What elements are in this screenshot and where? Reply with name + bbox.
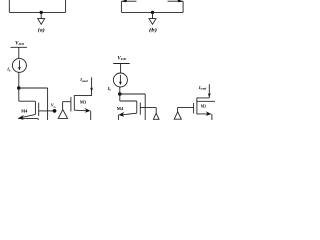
hollow arrow down (a) xyxy=(38,19,45,25)
wire right vertical of loop (a) xyxy=(65,0,67,12)
svg-text:VDD: VDD xyxy=(117,56,127,61)
wire node to gate tie (middle) xyxy=(120,93,145,95)
current source arrow inside (middle) xyxy=(119,75,121,83)
svg-text:Ib: Ib xyxy=(107,86,112,92)
wire gate tie vertical (middle) xyxy=(144,94,146,120)
svg-text:VDD: VDD xyxy=(15,41,25,46)
wire source drop (right M3) xyxy=(211,114,213,120)
transistor M3 gate bar (right) xyxy=(193,103,195,113)
node VG terminal dot (left) xyxy=(53,109,57,113)
wire top-right segment with current arrow pointing right (b) xyxy=(168,0,184,2)
current source arrow inside (left) xyxy=(18,60,20,68)
node junction dot (a) xyxy=(40,11,43,14)
wire gate stem down to triangle (middle M4) xyxy=(155,108,157,114)
wire stem below node (b) xyxy=(152,12,154,18)
wire left vertical of loop (b) xyxy=(120,1,122,12)
svg-text:(b): (b) xyxy=(149,29,157,34)
node drain dot (middle) xyxy=(118,92,122,96)
wire VDD to current source (left) xyxy=(18,47,20,58)
wire left vertical of loop (a) xyxy=(8,0,10,12)
transistor M4 channel (middle) xyxy=(136,101,138,113)
svg-text:(a): (a) xyxy=(38,29,45,34)
transistor M3 gate bar (middle) xyxy=(70,97,72,111)
transistor M3 channel (middle) xyxy=(73,95,75,110)
wire stem below node (a) xyxy=(40,12,42,18)
wire drain stub (middle M4) xyxy=(120,100,137,102)
wire gate stem down to triangle (right M3) xyxy=(177,107,179,111)
node drain dot (left) xyxy=(17,86,21,90)
wire corner to drain (right M3) xyxy=(197,98,209,101)
wire source drop (middle M4) xyxy=(117,115,119,120)
current source Ib circle (left) xyxy=(12,58,26,72)
wire bottom of loop (b) xyxy=(121,11,183,13)
wire drain down (left M4) xyxy=(18,88,20,101)
wire source rail (left) xyxy=(18,118,38,120)
wire top-left segment with current arrow pointing left (b) xyxy=(121,0,136,2)
wire gate lead (left M4) xyxy=(39,110,55,112)
wire Iout down (right) xyxy=(208,84,210,98)
current arrow down (right) xyxy=(208,93,211,97)
wire gate lead (middle M4) xyxy=(140,107,156,109)
wire right vertical of loop (b) xyxy=(182,1,184,12)
wire VDD to current source (middle) xyxy=(120,64,122,74)
node junction dot (b) xyxy=(151,11,154,14)
transistor M4 source lead with arrow (middle) xyxy=(121,113,137,115)
hollow triangle up (middle M4 gate) xyxy=(153,113,159,119)
transistor M4 gate bar (left) xyxy=(38,103,40,116)
svg-text:M3: M3 xyxy=(80,100,86,105)
wire gate lead (right M3) xyxy=(178,106,194,108)
transistor M3 source lead with arrow (middle) xyxy=(74,109,89,112)
hollow triangle up (right M3 gate) xyxy=(174,112,181,119)
transistor M3 source lead with arrow (right) xyxy=(197,112,210,114)
wire drain down (middle M4) xyxy=(119,94,121,101)
wire drain up (middle M3) xyxy=(74,77,91,95)
svg-text:M4: M4 xyxy=(21,109,28,114)
wire gate lead (middle M3) xyxy=(63,101,71,103)
svg-text:VG: VG xyxy=(51,102,56,108)
transistor M4 gate bar (middle) xyxy=(139,103,141,115)
wire drain stub (left M4) xyxy=(19,100,36,102)
svg-text:Ib: Ib xyxy=(6,67,11,73)
wire gate stem down to triangle (middle M3) xyxy=(62,102,64,110)
wire bottom of loop (a) xyxy=(9,11,65,13)
hollow arrow down (b) xyxy=(149,19,156,25)
wire gate tie vertical (left) xyxy=(47,88,49,120)
wire source drop (middle M3) xyxy=(90,111,92,120)
current arrow Iout down (middle M3 drain) xyxy=(90,87,93,91)
transistor M3 channel (right) xyxy=(196,101,198,112)
hollow triangle up (middle M3 gate) xyxy=(58,110,67,119)
svg-text:Iout: Iout xyxy=(79,77,88,83)
wire node to gate tie (left) xyxy=(19,87,48,89)
svg-text:Iout: Iout xyxy=(198,85,207,91)
wire current source to drain node (middle) xyxy=(119,87,121,94)
transistor M4 source lead with arrow (left) xyxy=(20,114,36,118)
current source Ib circle (middle) xyxy=(113,73,127,87)
wire drain stub to edge (right M3) xyxy=(196,100,215,102)
wire source rail drop (left) xyxy=(37,119,39,120)
wire current source to drain node (left) xyxy=(18,72,20,88)
svg-text:M4: M4 xyxy=(117,106,124,111)
transistor M4 channel (left) xyxy=(34,101,36,114)
svg-text:M3: M3 xyxy=(201,103,206,108)
